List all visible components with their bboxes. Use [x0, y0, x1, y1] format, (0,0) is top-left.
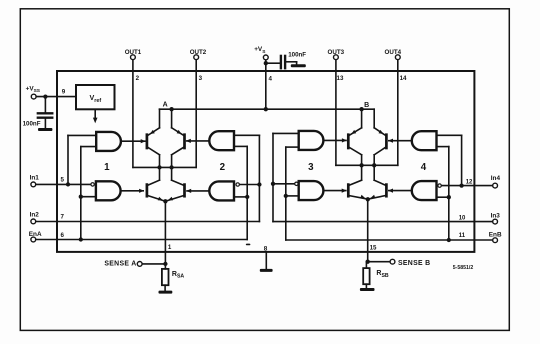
svg-text:12: 12 — [466, 180, 473, 186]
svg-text:In3: In3 — [491, 213, 501, 220]
svg-text:OUT1: OUT1 — [125, 49, 142, 56]
svg-text:B: B — [364, 102, 369, 109]
svg-text:1: 1 — [104, 162, 110, 173]
svg-text:100nF: 100nF — [288, 52, 306, 59]
svg-text:8: 8 — [264, 246, 268, 253]
svg-text:15: 15 — [370, 244, 377, 251]
svg-text:5-5851/2: 5-5851/2 — [453, 265, 474, 271]
svg-text:1: 1 — [168, 244, 172, 251]
svg-text:4: 4 — [421, 162, 427, 173]
svg-text:10: 10 — [459, 216, 466, 222]
svg-text:OUT4: OUT4 — [385, 49, 402, 56]
svg-text:11: 11 — [459, 233, 466, 239]
svg-text:5: 5 — [60, 176, 64, 183]
svg-text:In4: In4 — [491, 175, 501, 182]
svg-text:9: 9 — [62, 88, 66, 95]
svg-text:2: 2 — [220, 162, 226, 173]
svg-text:4: 4 — [269, 75, 273, 82]
svg-text:100nF: 100nF — [23, 121, 41, 128]
svg-text:SENSE B: SENSE B — [398, 260, 430, 267]
svg-text:OUT2: OUT2 — [190, 49, 207, 56]
svg-text:A: A — [163, 102, 168, 109]
svg-text:14: 14 — [400, 75, 407, 82]
svg-text:SENSE A: SENSE A — [104, 261, 136, 268]
svg-text:2: 2 — [136, 75, 140, 82]
svg-text:6: 6 — [60, 232, 64, 239]
svg-text:OUT3: OUT3 — [328, 49, 345, 56]
svg-text:3: 3 — [308, 162, 314, 173]
svg-text:In2: In2 — [30, 211, 40, 218]
svg-text:3: 3 — [199, 75, 203, 82]
svg-text:EnB: EnB — [489, 232, 502, 239]
svg-text:In1: In1 — [30, 175, 40, 182]
svg-text:13: 13 — [337, 75, 344, 82]
svg-text:7: 7 — [60, 213, 64, 220]
svg-text:EnA: EnA — [29, 231, 42, 238]
